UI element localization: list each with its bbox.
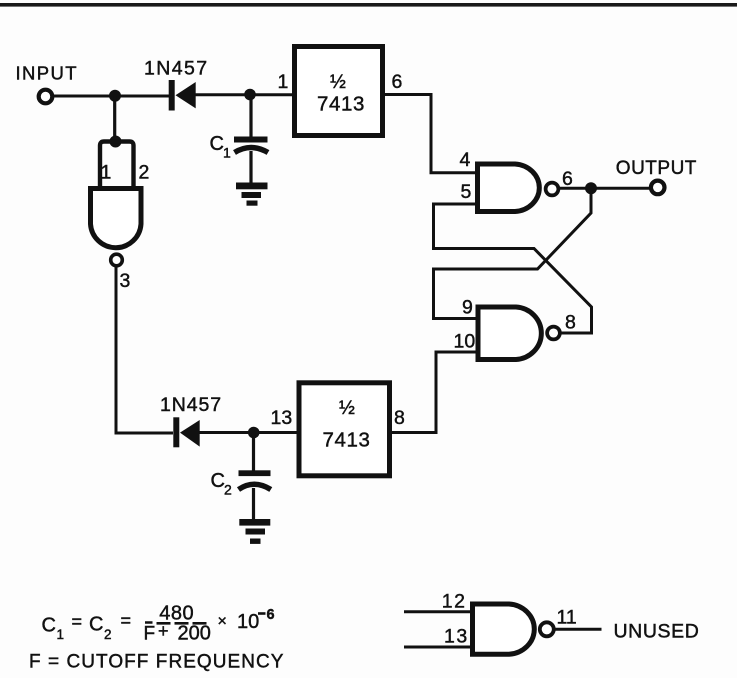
wire G2 output to OUTPUT terminal — [559, 187, 651, 190]
svg-text:×: × — [218, 613, 227, 630]
nand gate G4 (unused, pins 12,13 in, 11 out) — [473, 604, 535, 654]
svg-text:F = CUTOFF FREQUENCY: F = CUTOFF FREQUENCY — [29, 652, 285, 673]
G1 output bubble — [111, 254, 123, 266]
wire G3 output to G2 pin 5 (cross coupling) — [434, 204, 592, 333]
svg-text:9: 9 — [462, 297, 473, 319]
diode D1 1N457 (triangle) — [176, 82, 196, 108]
node B (bracket junction) — [110, 136, 122, 148]
capacitor C1 top plate — [234, 137, 268, 143]
wire U1 pin 6 to G2 pin 4 — [383, 95, 478, 173]
diode D1 1N457 (cathode bar) — [169, 80, 175, 111]
svg-text:2: 2 — [104, 627, 112, 642]
svg-text:1: 1 — [223, 145, 231, 161]
svg-text:11: 11 — [557, 607, 577, 629]
wire G1 output down and right to diode D2 — [116, 267, 173, 434]
svg-text:13: 13 — [444, 626, 469, 648]
node C (C1 tap) — [244, 89, 256, 101]
top border rule — [0, 3, 737, 7]
wire G4 pin 12 — [404, 610, 473, 613]
svg-text:½: ½ — [330, 72, 346, 93]
wire diode D2 to U2 pin 13 — [199, 431, 299, 434]
nand gate G3 (pins 9,10 in, 8 out) — [478, 307, 541, 360]
svg-text:8: 8 — [565, 312, 576, 334]
svg-text:3: 3 — [120, 270, 131, 292]
capacitor C2 top plate — [239, 470, 271, 476]
svg-text:5: 5 — [461, 181, 472, 203]
svg-text:4: 4 — [460, 149, 471, 171]
wire bracket to G1 pins 1 and 2 — [100, 142, 134, 189]
G4 output bubble — [540, 622, 554, 636]
wire capacitor C1 to ground — [249, 151, 252, 184]
svg-text:=: = — [121, 611, 132, 631]
svg-text:+: + — [158, 621, 169, 641]
G3 output bubble — [547, 327, 560, 340]
svg-text:1: 1 — [101, 162, 112, 184]
node D (output junction) — [585, 182, 597, 194]
svg-text:8: 8 — [394, 407, 405, 429]
svg-text:200: 200 — [178, 623, 211, 645]
svg-text:2: 2 — [224, 482, 232, 498]
svg-text:C: C — [89, 614, 103, 636]
svg-text:C: C — [210, 133, 224, 155]
diode D2 1N457 (cathode bar) — [173, 417, 179, 447]
svg-text:6: 6 — [267, 607, 275, 623]
capacitor C2 curved plate — [239, 484, 271, 489]
svg-text:6: 6 — [392, 71, 403, 93]
wire G4 output — [554, 628, 602, 631]
svg-text:7413: 7413 — [317, 93, 365, 116]
wire G4 pin 13 — [404, 646, 473, 649]
ground (C2) — [239, 519, 270, 544]
svg-text:F: F — [144, 624, 156, 645]
G2 output bubble — [546, 183, 559, 196]
svg-text:6: 6 — [562, 168, 573, 190]
output terminal — [651, 181, 665, 195]
svg-text:1: 1 — [278, 71, 289, 93]
nand gate G2 (pins 4,5 in, 6 out) — [478, 164, 540, 212]
nand gate G1 (inverter, points down) — [91, 189, 142, 248]
capacitor C1 curved plate — [235, 148, 269, 153]
svg-text:C: C — [211, 470, 225, 492]
wire input terminal to diode D1 — [53, 95, 170, 98]
formula C1 = C2 = 480/(F+200) x 10^-6 — [42, 603, 275, 645]
wire node A down to gate G1 bracket — [113, 96, 116, 141]
svg-text:2: 2 — [139, 162, 150, 184]
wire capacitor C2 to ground — [252, 488, 255, 520]
input terminal — [39, 90, 53, 104]
svg-text:UNUSED: UNUSED — [614, 621, 700, 643]
schmitt trigger U2 half 7413 (bottom box) — [299, 383, 390, 476]
svg-text:12: 12 — [442, 591, 467, 613]
wire node D to G3 pin 9 (cross coupling) — [434, 189, 592, 319]
schmitt trigger U1 half 7413 (top box) — [295, 47, 383, 136]
svg-text:C: C — [42, 615, 56, 637]
svg-text:7413: 7413 — [323, 429, 371, 452]
svg-text:1: 1 — [57, 627, 65, 642]
ground (C1) — [236, 183, 268, 206]
wire node C to capacitor C1 — [249, 95, 252, 137]
wire diode D1 to U1 pin 1 — [195, 93, 294, 96]
svg-text:1N457: 1N457 — [160, 394, 222, 416]
svg-text:INPUT: INPUT — [16, 63, 79, 84]
node A (input junction) — [109, 90, 121, 102]
svg-text:1N457: 1N457 — [144, 58, 208, 80]
svg-text:=: = — [72, 612, 83, 632]
node E (C2 tap) — [248, 427, 260, 439]
svg-text:10: 10 — [454, 331, 476, 353]
svg-text:OUTPUT: OUTPUT — [616, 158, 697, 179]
svg-text:½: ½ — [339, 398, 355, 419]
svg-text:13: 13 — [271, 407, 293, 429]
svg-text:10: 10 — [237, 611, 259, 633]
wire node E to capacitor C2 — [252, 433, 255, 471]
wire U2 pin 8 to G3 pin 10 — [390, 352, 478, 433]
diode D2 1N457 (triangle) — [180, 420, 200, 447]
